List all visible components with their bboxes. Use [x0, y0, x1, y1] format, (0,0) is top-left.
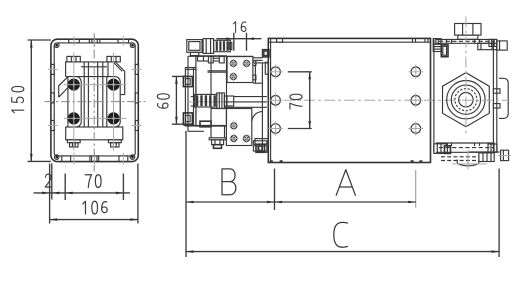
dimension 150 line	[30, 40, 32, 161]
tank horizontal centerline	[284, 99, 462, 101]
dimension text 2	[45, 174, 51, 187]
end cap horizontal centerline	[462, 99, 510, 101]
end cap top flange bar	[436, 38, 495, 40]
tank bottom feet tabs	[270, 160, 273, 162]
hex bolt top-right	[107, 56, 120, 62]
tank body outline	[268, 38, 430, 162]
dimension text B	[222, 169, 236, 195]
dimension 70 extension lines (front)	[64, 174, 66, 201]
dimension line A	[275, 201, 416, 203]
manifold adapter plate lines	[208, 70, 228, 72]
upper manifold block	[227, 57, 253, 83]
rear port boss lower	[183, 113, 192, 124]
dimension line C	[186, 251, 499, 253]
motor coupling hex nut	[443, 73, 490, 127]
dimension text 70 vertical	[290, 94, 302, 109]
dimension 60 extension lines	[172, 75, 189, 77]
cover plate edge tabs bottom	[62, 156, 71, 162]
pump body left bolt column	[68, 77, 81, 127]
end cap right plug	[497, 41, 507, 50]
lower manifold bolt 3	[244, 136, 250, 142]
front view outer cover plate	[51, 39, 138, 161]
dimension line 2 and 70	[34, 192, 131, 194]
dimension text 106	[83, 201, 107, 214]
filler plug hex head	[455, 24, 481, 36]
drain plug under pump	[209, 138, 226, 140]
pump flange rounded corner arc	[252, 112, 263, 123]
relief valve fitting top - connector body	[187, 40, 202, 53]
bottom stud left	[67, 140, 80, 143]
right flange small bosses	[493, 89, 500, 93]
left suction fitting at tank top right	[433, 44, 441, 51]
filler plug neck	[458, 35, 478, 39]
end cap vertical plate left	[433, 39, 435, 152]
cover plate edge tabs top	[69, 39, 80, 43]
dimension 150 extension lines	[28, 39, 51, 41]
dimension B extension line left	[185, 131, 187, 257]
end cap hidden line bottom	[439, 147, 493, 149]
tab center tick marks	[73, 36, 75, 45]
bottom ribbed fitting	[479, 153, 494, 162]
corner screw bottom-right	[130, 155, 135, 160]
relief valve fitting top - hex nut	[203, 39, 214, 54]
interface strip flat piece	[253, 141, 267, 145]
relief valve fitting top - ribbed adjuster	[214, 40, 231, 51]
bolt column centerlines	[73, 53, 75, 151]
suction elbow bottom left	[434, 144, 448, 154]
tank left lower fittings	[255, 139, 268, 144]
dimension text 60	[157, 94, 169, 108]
front view vertical centerline	[93, 33, 95, 172]
dimension text 150	[12, 86, 24, 112]
front view inner plate edge	[54, 43, 135, 156]
dimension 60 line	[175, 76, 177, 124]
dimension A extension line right	[415, 170, 417, 208]
dimension 70 tank line	[309, 72, 311, 129]
lower manifold bolt 1	[231, 123, 237, 129]
upper manifold bolt 2	[244, 60, 250, 66]
dimension 70 tank extension lines	[288, 71, 312, 73]
front view horizontal centerline	[45, 101, 146, 103]
end cap bottom right corner bolt	[488, 144, 497, 152]
upper block clamp tabs	[208, 57, 213, 63]
pump body yoke top	[66, 62, 125, 95]
pump rear cover plate	[185, 68, 196, 127]
pump body gear chamber walls	[83, 62, 85, 127]
lower manifold bolt 2	[231, 136, 237, 142]
corner screw bottom-left	[54, 155, 59, 160]
pump housing block	[196, 56, 227, 126]
pump-tank interface strip	[253, 82, 262, 84]
corner screw top-right	[130, 43, 135, 48]
coupling rails to rear plate	[191, 96, 195, 98]
socket screw top-left	[68, 79, 79, 90]
end cap hidden line top	[439, 40, 493, 42]
hidden drain pipe dashed	[441, 156, 479, 158]
tank top inner line	[268, 41, 430, 43]
bottom stud right	[108, 140, 121, 143]
dimension 2 extension lines	[49, 164, 51, 224]
cover plate edge tabs left	[51, 64, 54, 74]
lower manifold block	[226, 109, 251, 146]
dimension 106 line	[50, 219, 138, 221]
tank mounting holes right column	[411, 67, 421, 77]
upper manifold bolt 3	[230, 74, 236, 80]
upper manifold bolt 1	[230, 60, 236, 66]
end cap vertical plates right	[492, 39, 494, 152]
coupling circles	[447, 81, 485, 119]
bottom right plug	[501, 150, 509, 160]
dimension 16 line	[216, 38, 261, 40]
cover plate edge tabs right	[135, 64, 138, 74]
end cap top right corner bolt	[489, 39, 497, 46]
port notch left side	[59, 77, 68, 97]
end cap bottom flange bar	[436, 142, 495, 144]
dimension line B	[186, 201, 275, 203]
tank left edge tab	[265, 62, 268, 74]
socket screw bottom-left	[68, 113, 79, 124]
dimension 16 extension lines	[233, 33, 235, 51]
tank left edge inner line	[270, 38, 272, 162]
bottom mounting bar	[66, 127, 123, 140]
upper right corner bracket	[263, 50, 269, 57]
dimension text 70	[85, 175, 101, 188]
end cap right bracket tab	[499, 78, 508, 118]
end cap top left bolt	[433, 39, 441, 45]
dimension text 16	[233, 22, 246, 33]
hex bolt top-left	[67, 56, 80, 62]
rear port boss upper	[183, 76, 192, 86]
drive shaft rails to tank	[225, 101, 267, 103]
end cap vertical centerline	[465, 17, 467, 137]
drain dish arc below tank	[457, 162, 479, 165]
socket screw bottom-right	[108, 113, 119, 124]
tank top tabs	[277, 38, 283, 42]
tank mounting holes left column	[271, 67, 281, 77]
corner screw top-left	[54, 43, 59, 48]
coupling ribs	[195, 94, 217, 107]
end cap right port fitting	[478, 43, 497, 49]
upper block right clamp arm	[253, 57, 263, 59]
dimension A-B shared extension line	[274, 169, 276, 211]
lower bracket boss	[200, 121, 211, 127]
dimension text A	[336, 170, 355, 196]
socket screw top-right	[108, 79, 119, 90]
coupling right section	[224, 96, 233, 106]
dimension 106 extension line right	[137, 164, 139, 224]
pump body right bolt column	[107, 77, 120, 127]
bottom fitting centerline cross	[467, 150, 469, 170]
dimension C extension line right	[498, 169, 500, 258]
dimension text C	[334, 222, 348, 247]
coupling spline circle	[455, 89, 477, 111]
middle horizontal centerline	[188, 101, 266, 103]
coupling hub block	[217, 93, 225, 109]
